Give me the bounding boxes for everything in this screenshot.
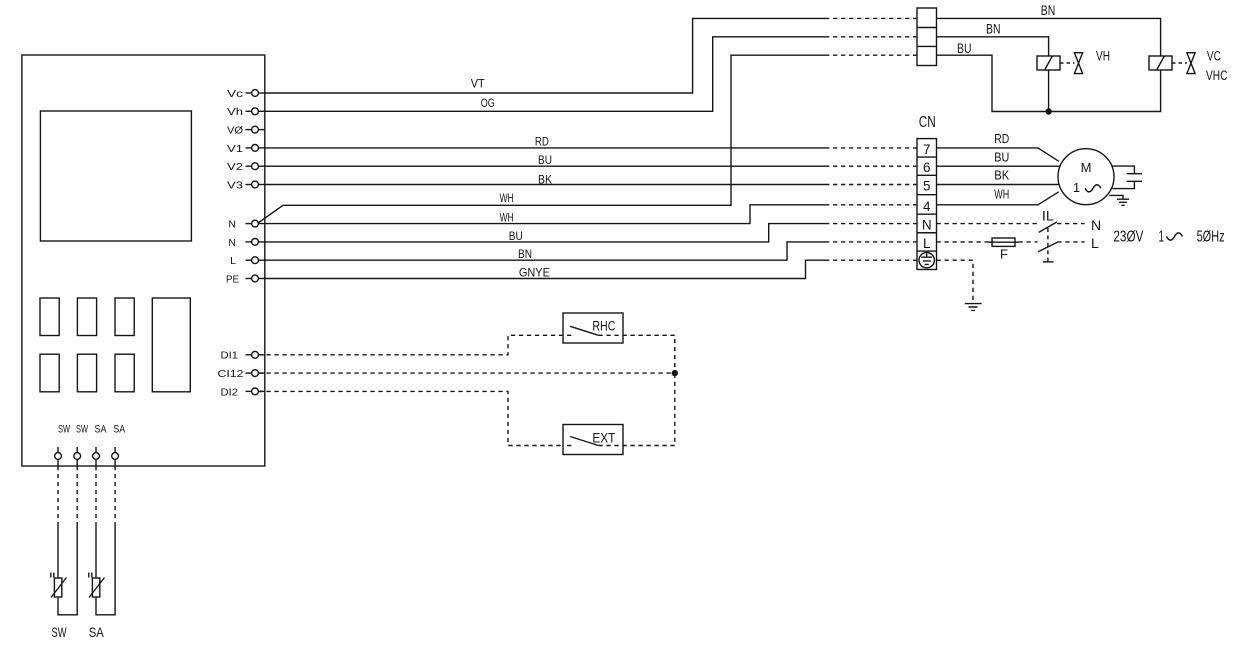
wire WH1 dashed tail [825, 54, 917, 56]
svg-text:SW: SW [76, 424, 88, 436]
svg-text:L: L [1091, 235, 1099, 251]
wire VT from Vc to top terminal row1 [265, 18, 825, 93]
wire EXT dashed to junction [598, 373, 674, 445]
switch IL pole N blade [1039, 222, 1057, 232]
motor ground [1109, 195, 1129, 205]
wire BU dashed tail [825, 165, 917, 167]
svg-text:PE: PE [226, 273, 239, 285]
wire BK CN to motor [937, 184, 1060, 186]
wire N dashed CN to switch [937, 223, 1038, 225]
svg-text:V2: V2 [227, 161, 243, 173]
svg-text:VH: VH [1096, 49, 1110, 64]
wire BU from V2 to CN 6 [265, 165, 825, 167]
svg-text:7: 7 [923, 142, 931, 157]
wire RD CN to motor [937, 148, 1059, 161]
PE symbol in CN [919, 253, 934, 268]
switch IL link bar [1043, 261, 1054, 263]
wire RD from V1 to CN 7 [265, 147, 825, 149]
svg-text:BN: BN [518, 247, 532, 261]
svg-text:6: 6 [923, 160, 931, 175]
controller box outline [22, 55, 265, 466]
ground symbol PE [965, 304, 982, 311]
button 6 [115, 354, 134, 392]
top terminal block [917, 8, 937, 66]
svg-text:5ØHz: 5ØHz [1197, 229, 1225, 246]
sensor SW loop [58, 524, 77, 615]
svg-text:CN: CN [919, 114, 936, 131]
wire OG from Vh to top terminal row2 [265, 37, 825, 112]
dashed link VC [1172, 62, 1187, 64]
svg-text:N: N [228, 219, 236, 231]
svg-text:23ØV: 23ØV [1113, 229, 1143, 246]
svg-text:N: N [922, 218, 932, 233]
motor M1 circle [1058, 149, 1114, 205]
big button [152, 298, 190, 392]
wire BK from V3 to CN 5 [265, 184, 825, 186]
sine glyph for supply [1167, 233, 1183, 240]
switch RHC box [563, 313, 623, 343]
wire BU2 dashed tail [825, 223, 917, 225]
terminal V1 [246, 145, 265, 152]
terminal V3 [246, 181, 265, 188]
wire WH CN to motor [937, 192, 1059, 205]
display rectangle [40, 111, 191, 241]
sensor terminal SW1 [55, 447, 62, 466]
terminal N1 [246, 220, 259, 227]
sensor SA loop [96, 524, 115, 615]
wire PE dashed to ground [937, 260, 974, 303]
svg-text:BU: BU [994, 149, 1009, 164]
svg-text:SA: SA [89, 625, 104, 640]
wire WH2 from N1 to CN 4 [258, 205, 825, 224]
terminal Vc [246, 90, 265, 97]
svg-text:WH: WH [500, 211, 514, 225]
svg-text:4: 4 [923, 199, 931, 214]
wire L dashed fuse to switch [1019, 241, 1038, 243]
terminal N2 [246, 239, 265, 246]
svg-text:BU: BU [538, 153, 552, 167]
wire BN to valve relay VC [937, 18, 1161, 56]
relay coil VH [1037, 56, 1060, 70]
switch EXT contact [567, 437, 598, 446]
terminal DI2 [246, 388, 265, 395]
wire VH relay to common [1048, 70, 1050, 112]
svg-text:1: 1 [1073, 180, 1080, 195]
connector CN block [917, 139, 937, 270]
wire CI12 dashed [258, 372, 674, 374]
svg-text:1: 1 [1159, 229, 1165, 246]
wire BK dashed tail [825, 184, 917, 186]
wire SA2 dashed [114, 466, 116, 524]
wire GNYE dashed tail [825, 259, 917, 261]
relay coil VC [1149, 56, 1172, 70]
wire VT dashed tail [825, 17, 917, 19]
svg-text:N: N [228, 237, 236, 249]
svg-text:BU: BU [957, 41, 972, 56]
button 5 [77, 354, 96, 392]
button 4 [40, 354, 59, 392]
svg-text:SA: SA [95, 424, 108, 436]
sensor terminal SA1 [93, 447, 100, 466]
svg-text:VHC: VHC [1206, 68, 1228, 83]
junction dot DI [672, 370, 678, 376]
wire BN2 from L to CN L [265, 242, 825, 260]
terminal DI1 [246, 351, 265, 358]
svg-text:GNYE: GNYE [519, 266, 550, 280]
valve VH [1074, 53, 1082, 74]
wire SW2 dashed [76, 466, 78, 524]
wire N dashed to label [1057, 223, 1085, 225]
svg-text:N: N [1091, 217, 1101, 233]
wire WH1 from N1 diagonal to top terminal row3 [259, 55, 825, 222]
svg-text:SA: SA [113, 424, 126, 436]
svg-text:DI1: DI1 [221, 350, 239, 362]
svg-text:BK: BK [994, 168, 1009, 183]
wire L dashed to label [1057, 241, 1084, 243]
svg-text:OG: OG [481, 96, 495, 110]
wire GNYE from PE to CN PE [265, 260, 825, 278]
wire WH2 dashed tail [825, 204, 917, 206]
wire BU common of valves [937, 55, 1161, 111]
svg-text:BN: BN [986, 22, 1001, 37]
wire DI1 dashed to RHC [258, 335, 563, 355]
switch EXT box [563, 425, 623, 455]
svg-text:Vc: Vc [227, 88, 243, 100]
svg-text:V3: V3 [227, 179, 243, 191]
button 3 [115, 298, 134, 336]
svg-text:WH: WH [500, 191, 514, 205]
wire L dashed CN to fuse [937, 241, 993, 243]
terminal CI12 [246, 370, 265, 377]
button 2 [77, 298, 96, 336]
svg-text:L: L [923, 236, 931, 251]
button 1 [40, 298, 59, 336]
wire SW1 dashed [57, 466, 59, 524]
svg-text:CI12: CI12 [218, 368, 244, 380]
wire RD dashed tail [825, 147, 917, 149]
motor sine wave [1085, 185, 1101, 192]
wire BU2 from N2 to CN N [265, 224, 825, 242]
switch RHC contact [567, 326, 598, 335]
terminal PE [246, 275, 265, 282]
svg-text:VØ: VØ [227, 125, 243, 137]
svg-text:Vh: Vh [227, 106, 243, 118]
terminal V2 [246, 163, 265, 170]
fuse F [989, 238, 1019, 246]
svg-text:RD: RD [535, 134, 549, 148]
svg-text:SW: SW [58, 424, 70, 436]
svg-text:BK: BK [538, 172, 552, 186]
svg-text:DI2: DI2 [221, 386, 239, 398]
thermistor SW [51, 573, 67, 598]
wire DI2 dashed to EXT [258, 391, 563, 445]
svg-text:WH: WH [994, 187, 1009, 202]
svg-text:VC: VC [1207, 49, 1221, 64]
wire OG dashed tail [825, 36, 917, 38]
svg-text:5: 5 [923, 179, 931, 194]
wire BN to valve relay VH [937, 37, 1049, 56]
svg-text:RD: RD [994, 131, 1009, 146]
svg-text:VT: VT [471, 76, 486, 90]
valve VC [1187, 53, 1195, 74]
switch IL pole L blade [1038, 242, 1057, 252]
sensor terminal SA2 [112, 447, 119, 466]
svg-text:L: L [230, 255, 236, 267]
wire BU CN to motor [937, 165, 1061, 167]
wire RHC dashed to junction [598, 335, 674, 373]
junction dot valves common [1045, 108, 1051, 114]
svg-text:M: M [1081, 160, 1092, 175]
switch IL link dashed [1047, 228, 1049, 262]
dashed link VH [1060, 62, 1074, 64]
wire SA1 dashed [95, 466, 97, 524]
svg-text:F: F [1000, 247, 1008, 262]
svg-text:RHC: RHC [592, 318, 615, 333]
svg-text:EXT: EXT [592, 431, 615, 446]
wire BN2 dashed tail [825, 241, 917, 243]
terminal V0 [246, 126, 265, 133]
thermistor SA [89, 573, 105, 598]
terminal L [246, 257, 265, 264]
svg-text:IL: IL [1042, 208, 1055, 223]
terminal Vh [246, 108, 265, 115]
svg-text:V1: V1 [227, 143, 243, 155]
motor capacitor [1112, 166, 1142, 189]
sensor terminal SW2 [74, 447, 81, 466]
svg-text:BN: BN [1041, 3, 1056, 18]
svg-text:SW: SW [52, 625, 67, 640]
svg-text:BU: BU [509, 229, 523, 243]
